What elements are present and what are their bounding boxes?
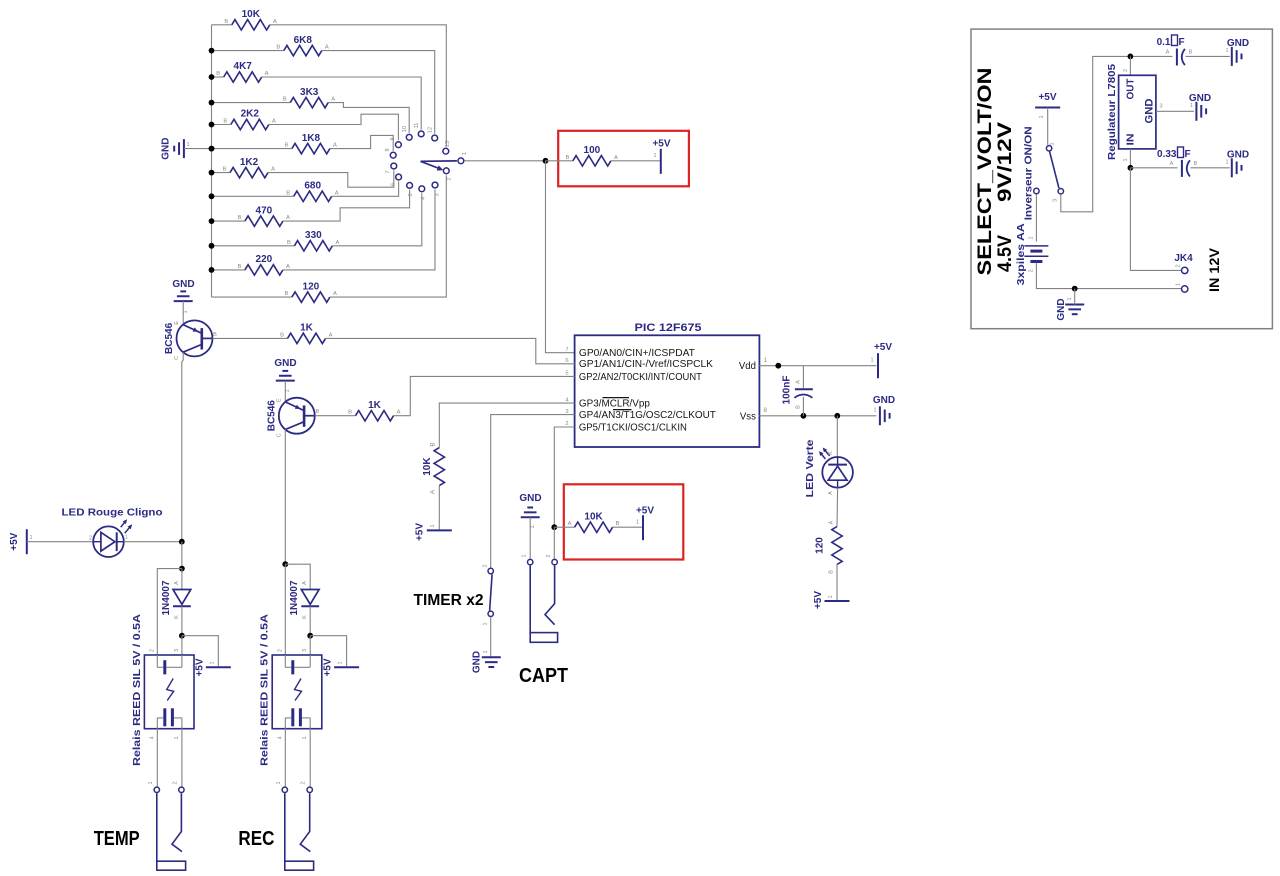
svg-text:BC546: BC546 [267, 400, 278, 432]
junction [209, 267, 215, 273]
svg-text:B: B [315, 409, 319, 415]
svg-text:8: 8 [385, 148, 391, 151]
svg-text:A: A [272, 119, 276, 125]
wire [546, 160, 573, 162]
wire [1047, 108, 1049, 145]
svg-text:1: 1 [764, 357, 768, 364]
svg-text:2: 2 [301, 781, 307, 784]
transistor Q2 BC546 [267, 398, 320, 437]
svg-text:2: 2 [89, 536, 92, 542]
relay K2 REED SIL 5V [260, 614, 322, 766]
svg-text:GND: GND [1056, 298, 1067, 320]
ground GND (battery) [1056, 289, 1084, 321]
wire (diode to relay pin 3) [309, 636, 311, 656]
resistor 220 [237, 254, 290, 275]
wire (to relay pin 2) [284, 564, 286, 655]
svg-text:9V/12V: 9V/12V [995, 122, 1016, 202]
wire [1130, 55, 1172, 57]
svg-text:2: 2 [565, 421, 568, 427]
svg-text:1N4007: 1N4007 [289, 580, 300, 615]
svg-text:8: 8 [764, 407, 768, 414]
svg-text:A: A [397, 410, 401, 416]
junction [179, 633, 185, 639]
svg-text:4.5V: 4.5V [995, 235, 1016, 272]
svg-text:K: K [174, 615, 180, 619]
svg-text:1: 1 [209, 661, 215, 664]
ground GND (Vss) [873, 395, 895, 425]
text CAPT [519, 665, 568, 687]
svg-text:680: 680 [304, 181, 321, 192]
junction [1128, 54, 1134, 60]
junction [801, 413, 807, 419]
svg-text:A: A [325, 45, 329, 51]
wire ladder ground bus [211, 25, 213, 297]
svg-text:CAPT: CAPT [519, 665, 568, 687]
svg-text:LED Rouge Cligno: LED Rouge Cligno [62, 508, 163, 519]
wire [212, 172, 231, 174]
svg-text:1: 1 [1029, 236, 1035, 239]
junction [209, 48, 215, 54]
svg-text:GP4/AN3/T1G/OSC2/CLKOUT: GP4/AN3/T1G/OSC2/CLKOUT [579, 409, 717, 421]
highlight box (pull-up 10K) [564, 484, 684, 559]
wire (to JK4 pin2) [1130, 168, 1181, 271]
wire [836, 488, 839, 527]
wire [212, 296, 292, 298]
svg-text:4: 4 [421, 197, 427, 200]
ground GND (C3) [1225, 150, 1249, 178]
svg-text:2: 2 [546, 554, 552, 557]
wire [212, 24, 232, 26]
svg-text:470: 470 [256, 205, 273, 216]
svg-text:100nF: 100nF [782, 376, 793, 405]
svg-text:B: B [283, 97, 287, 103]
svg-text:3: 3 [1159, 104, 1162, 110]
svg-text:1: 1 [483, 650, 489, 653]
wire (GP3) [439, 403, 574, 448]
svg-text:4K7: 4K7 [234, 61, 253, 72]
svg-text:A: A [331, 97, 335, 103]
wire (to +5V) [310, 636, 346, 667]
svg-text:GP3/MCLR/Vpp: GP3/MCLR/Vpp [579, 398, 650, 410]
text 3xpiles AA [1016, 223, 1027, 285]
wire [1130, 167, 1177, 169]
wire [322, 51, 435, 134]
wire (reg IN pin1) [1129, 149, 1131, 168]
diode D2 1N4007 [161, 580, 191, 619]
svg-text:10: 10 [402, 126, 408, 132]
svg-text:B: B [237, 215, 241, 221]
svg-text:1: 1 [174, 736, 180, 739]
wire (diode to relay pin 3) [181, 636, 183, 656]
svg-text:3: 3 [435, 193, 441, 196]
svg-text:1: 1 [530, 525, 536, 528]
wire [212, 195, 294, 197]
wire [268, 170, 394, 187]
junction [1072, 286, 1078, 292]
svg-text:+5V: +5V [652, 139, 670, 150]
wire [836, 416, 838, 457]
svg-text:IN 12V: IN 12V [1206, 247, 1222, 292]
wire [181, 542, 183, 569]
svg-text:1: 1 [636, 520, 639, 526]
junction [1128, 165, 1134, 171]
svg-text:B: B [223, 167, 227, 173]
wire (node to GP0) [546, 161, 575, 353]
wire [283, 190, 435, 270]
svg-text:1: 1 [462, 152, 468, 155]
svg-text:PIC 12F675: PIC 12F675 [635, 322, 702, 334]
connector JK4 [1174, 253, 1193, 292]
svg-text:330: 330 [305, 230, 322, 241]
svg-text:3: 3 [174, 649, 180, 652]
resistor 470 [237, 205, 290, 226]
svg-text:1: 1 [285, 389, 291, 392]
svg-text:2: 2 [447, 177, 453, 180]
svg-text:2: 2 [1029, 269, 1035, 272]
wire [1191, 167, 1230, 169]
svg-text:A: A [302, 581, 308, 585]
capacitor C1 100nF [782, 376, 813, 409]
wire [1186, 55, 1230, 57]
svg-text:2: 2 [149, 649, 155, 652]
junction [543, 158, 549, 164]
svg-text:9: 9 [390, 137, 396, 140]
junction [307, 633, 313, 639]
svg-text:2: 2 [1028, 197, 1034, 200]
svg-text:3: 3 [1053, 199, 1059, 202]
svg-text:1K: 1K [300, 323, 314, 334]
text 9V/12V [995, 122, 1016, 202]
svg-text:A: A [335, 190, 339, 196]
supply +5V [652, 139, 670, 174]
wire (to diode) [285, 564, 310, 589]
junction [209, 122, 215, 128]
svg-text:1: 1 [186, 142, 189, 148]
svg-text:1K8: 1K8 [302, 133, 321, 144]
svg-text:GND: GND [274, 358, 296, 369]
svg-text:C: C [174, 356, 180, 360]
wire (switch pole to node) [464, 160, 545, 162]
svg-text:A: A [796, 380, 802, 384]
ground GND (C2) [1225, 38, 1249, 66]
svg-text:GP2/AN2/T0CKI/INT/COUNT: GP2/AN2/T0CKI/INT/COUNT [579, 371, 703, 383]
wire [212, 76, 224, 78]
svg-text:F: F [1179, 37, 1185, 48]
wire [156, 729, 158, 787]
switch TIMER [483, 564, 494, 625]
jack J3 (CAPT) [522, 554, 558, 642]
text IN 12V [1206, 247, 1222, 292]
svg-text:GND: GND [472, 651, 483, 673]
jack J2 (REC) [276, 781, 314, 870]
capacitor C3 0.33uF [1157, 147, 1198, 177]
svg-text:A: A [333, 143, 337, 149]
wire (GP5) [554, 427, 574, 527]
svg-text:4: 4 [149, 736, 155, 739]
svg-text:10K: 10K [584, 512, 603, 523]
svg-text:B: B [429, 443, 436, 447]
svg-text:B: B [223, 119, 227, 125]
svg-text:1: 1 [873, 408, 876, 414]
ground GND (Q1 emitter) [172, 279, 194, 324]
wire [553, 527, 555, 559]
wire [554, 526, 574, 528]
svg-text:1: 1 [483, 622, 489, 625]
svg-text:B: B [796, 405, 802, 409]
svg-text:7: 7 [565, 347, 568, 353]
resistor 100 [565, 145, 618, 166]
wire [332, 193, 421, 246]
wire (1K to GP1) [326, 338, 575, 363]
svg-text:1: 1 [125, 535, 128, 541]
svg-text:B: B [280, 332, 284, 338]
junction [209, 100, 215, 106]
svg-text:1: 1 [1225, 160, 1228, 166]
svg-text:1: 1 [1067, 297, 1073, 300]
svg-text:REC: REC [238, 828, 274, 850]
svg-text:A: A [286, 215, 290, 221]
svg-text:IN: IN [1126, 134, 1137, 146]
junction [551, 524, 557, 530]
jack J1 (TEMP) [148, 781, 186, 870]
svg-text:6: 6 [391, 183, 397, 186]
wire [212, 220, 245, 222]
wire [181, 606, 183, 636]
svg-text:3: 3 [302, 649, 308, 652]
svg-text:2K2: 2K2 [241, 109, 260, 120]
svg-text:K: K [828, 451, 834, 455]
svg-text:1: 1 [522, 554, 528, 557]
junction [209, 243, 215, 249]
svg-text:JK4: JK4 [1174, 253, 1193, 264]
wire (Vss) [759, 415, 876, 417]
svg-text:1K2: 1K2 [240, 157, 259, 168]
svg-text:1: 1 [430, 524, 436, 527]
svg-text:GP1/AN1/CIN-/Vref/ICSPCLK: GP1/AN1/CIN-/Vref/ICSPCLK [579, 358, 713, 370]
junction [209, 146, 215, 152]
svg-text:GND: GND [161, 137, 172, 159]
svg-text:13: 13 [445, 141, 451, 147]
wire [212, 245, 295, 247]
wire [284, 729, 286, 787]
svg-text:B: B [286, 190, 290, 196]
svg-text:F: F [1185, 149, 1191, 160]
resistor 3K3 [283, 87, 336, 108]
text 4.5V [995, 235, 1016, 272]
wire [181, 729, 183, 787]
svg-text:GND: GND [519, 493, 541, 504]
wire (reg OUT pin2) [1129, 56, 1131, 75]
svg-text:GP5/T1CKI/OSC1/CLKIN: GP5/T1CKI/OSC1/CLKIN [579, 421, 687, 433]
resistor 2K2 [223, 109, 275, 130]
wire [283, 190, 410, 221]
resistor 4K7 [216, 61, 269, 82]
svg-text:B: B [284, 143, 288, 149]
svg-text:A: A [568, 521, 572, 527]
ground GND (ladder) [161, 137, 212, 159]
wire [438, 486, 440, 531]
svg-text:A: A [265, 71, 269, 77]
svg-text:B: B [287, 240, 291, 246]
wire [284, 430, 286, 565]
wire (to +5V) [182, 636, 218, 667]
wire (Vdd) [759, 365, 876, 367]
svg-text:7: 7 [386, 170, 392, 173]
wire [262, 77, 422, 130]
svg-text:120: 120 [814, 537, 825, 554]
svg-text:B: B [829, 570, 835, 574]
wire (1K to GP2) [394, 376, 575, 415]
svg-text:1: 1 [148, 781, 154, 784]
wire [1036, 263, 1181, 289]
svg-text:11: 11 [414, 123, 420, 129]
junction [209, 218, 215, 224]
svg-text:5: 5 [408, 193, 414, 196]
LED D4 LED Verte [805, 439, 853, 498]
resistor 120 [284, 281, 337, 302]
wire [802, 366, 804, 389]
wire [332, 181, 399, 196]
svg-text:Inverseur ON/ON: Inverseur ON/ON [1023, 126, 1034, 220]
svg-text:B: B [216, 71, 220, 77]
junction [282, 561, 288, 567]
svg-text:100: 100 [584, 145, 601, 156]
ground GND (Q2 emitter) [274, 358, 296, 402]
svg-text:A: A [329, 332, 333, 338]
svg-text:B: B [1189, 50, 1193, 56]
text REC [238, 828, 274, 850]
svg-text:TIMER x2: TIMER x2 [414, 592, 484, 609]
svg-text:3: 3 [565, 409, 568, 415]
wire [213, 337, 288, 339]
wire [490, 617, 492, 658]
svg-text:OUT: OUT [1126, 79, 1137, 100]
svg-text:1K: 1K [368, 400, 382, 411]
battery B1 3xpiles AA [1024, 236, 1048, 272]
text SELECT_VOLT/ON [975, 67, 996, 275]
text TEMP [94, 828, 140, 850]
wire (GP4) [491, 415, 575, 568]
wire [328, 103, 409, 133]
wire [309, 606, 311, 636]
svg-text:BC546: BC546 [164, 322, 175, 354]
transistor Q1 BC546 [164, 320, 217, 359]
svg-text:1N4007: 1N4007 [161, 580, 172, 615]
svg-text:C: C [276, 433, 282, 437]
svg-text:2: 2 [172, 781, 178, 784]
svg-text:1: 1 [1176, 283, 1182, 286]
svg-text:6: 6 [565, 358, 568, 364]
svg-text:Regulateur L7805: Regulateur L7805 [1107, 64, 1118, 160]
resistor R-1K (Q2 base) [348, 400, 401, 421]
supply +5V (Vdd) [870, 342, 892, 378]
junction [209, 193, 215, 199]
svg-text:+5V: +5V [1038, 92, 1056, 103]
svg-text:B: B [284, 291, 288, 297]
wire [802, 397, 804, 416]
svg-text:+5V: +5V [636, 506, 654, 517]
svg-text:B: B [1194, 161, 1198, 167]
wire [613, 526, 642, 528]
wire [611, 160, 660, 162]
wire [212, 148, 292, 150]
wire (switch to regulator OUT) [1061, 56, 1131, 211]
svg-text:5: 5 [565, 371, 568, 377]
svg-text:B: B [237, 264, 241, 270]
svg-text:1: 1 [828, 595, 834, 598]
wire [330, 175, 446, 297]
svg-text:2: 2 [1123, 69, 1129, 72]
svg-text:A: A [828, 491, 834, 495]
resistor 330 [287, 230, 340, 251]
wire [1035, 194, 1037, 241]
text Inverseur ON/ON [1023, 126, 1034, 220]
svg-text:1: 1 [302, 736, 308, 739]
wire [212, 50, 284, 52]
supply +5V (relay coil) [323, 658, 359, 676]
svg-text:A: A [829, 520, 835, 524]
svg-text:1: 1 [870, 358, 873, 364]
svg-text:1: 1 [29, 535, 32, 541]
wire [181, 569, 183, 590]
ground GND (regulator) [1189, 93, 1211, 121]
wire [309, 729, 311, 787]
wire [124, 541, 182, 543]
svg-text:0.33: 0.33 [1157, 149, 1177, 160]
svg-text:120: 120 [303, 281, 320, 292]
svg-text:A: A [335, 240, 339, 246]
supply +5V (select) [1035, 92, 1060, 119]
junction [209, 170, 215, 176]
frame SELECT_VOLT/ON [971, 29, 1272, 329]
svg-text:GND: GND [1144, 98, 1156, 123]
ground GND (TIMER) [472, 650, 501, 673]
svg-text:B: B [213, 332, 217, 338]
svg-text:0.1: 0.1 [1157, 37, 1171, 48]
wire [269, 114, 399, 140]
wire (to relay pin 2) [157, 569, 182, 656]
wire (reg GND pin3) [1156, 110, 1194, 112]
svg-text:2: 2 [1176, 264, 1182, 267]
resistor R-120 (LED) [814, 520, 842, 574]
resistor 1K8 [284, 133, 337, 154]
wire [270, 25, 447, 147]
resistor R-10K (CAPT pullup) [568, 512, 620, 533]
svg-text:TEMP: TEMP [94, 828, 140, 850]
supply +5V (LED verte) [813, 591, 850, 609]
svg-text:+5V: +5V [194, 658, 205, 676]
svg-text:GND: GND [1227, 150, 1249, 161]
svg-text:Relais REED SIL 5V / 0.5A: Relais REED SIL 5V / 0.5A [260, 614, 271, 766]
svg-text:+5V: +5V [9, 532, 20, 550]
svg-text:220: 220 [256, 254, 273, 265]
resistor R-1K (Q1 base) [280, 323, 333, 344]
svg-text:B: B [616, 521, 620, 527]
svg-text:1: 1 [1050, 142, 1056, 145]
svg-text:B: B [565, 155, 569, 161]
ground GND (CAPT) [519, 493, 541, 559]
svg-text:Vss: Vss [740, 410, 756, 422]
svg-text:1: 1 [183, 310, 189, 313]
resistor 10K [224, 9, 276, 30]
switch S2 Inverseur ON/ON [1028, 142, 1064, 202]
svg-text:10K: 10K [242, 9, 261, 20]
junction [179, 539, 185, 545]
svg-text:SELECT_VOLT/ON: SELECT_VOLT/ON [975, 67, 996, 275]
junction [775, 363, 781, 369]
junction [209, 74, 215, 80]
svg-text:10K: 10K [422, 457, 433, 476]
